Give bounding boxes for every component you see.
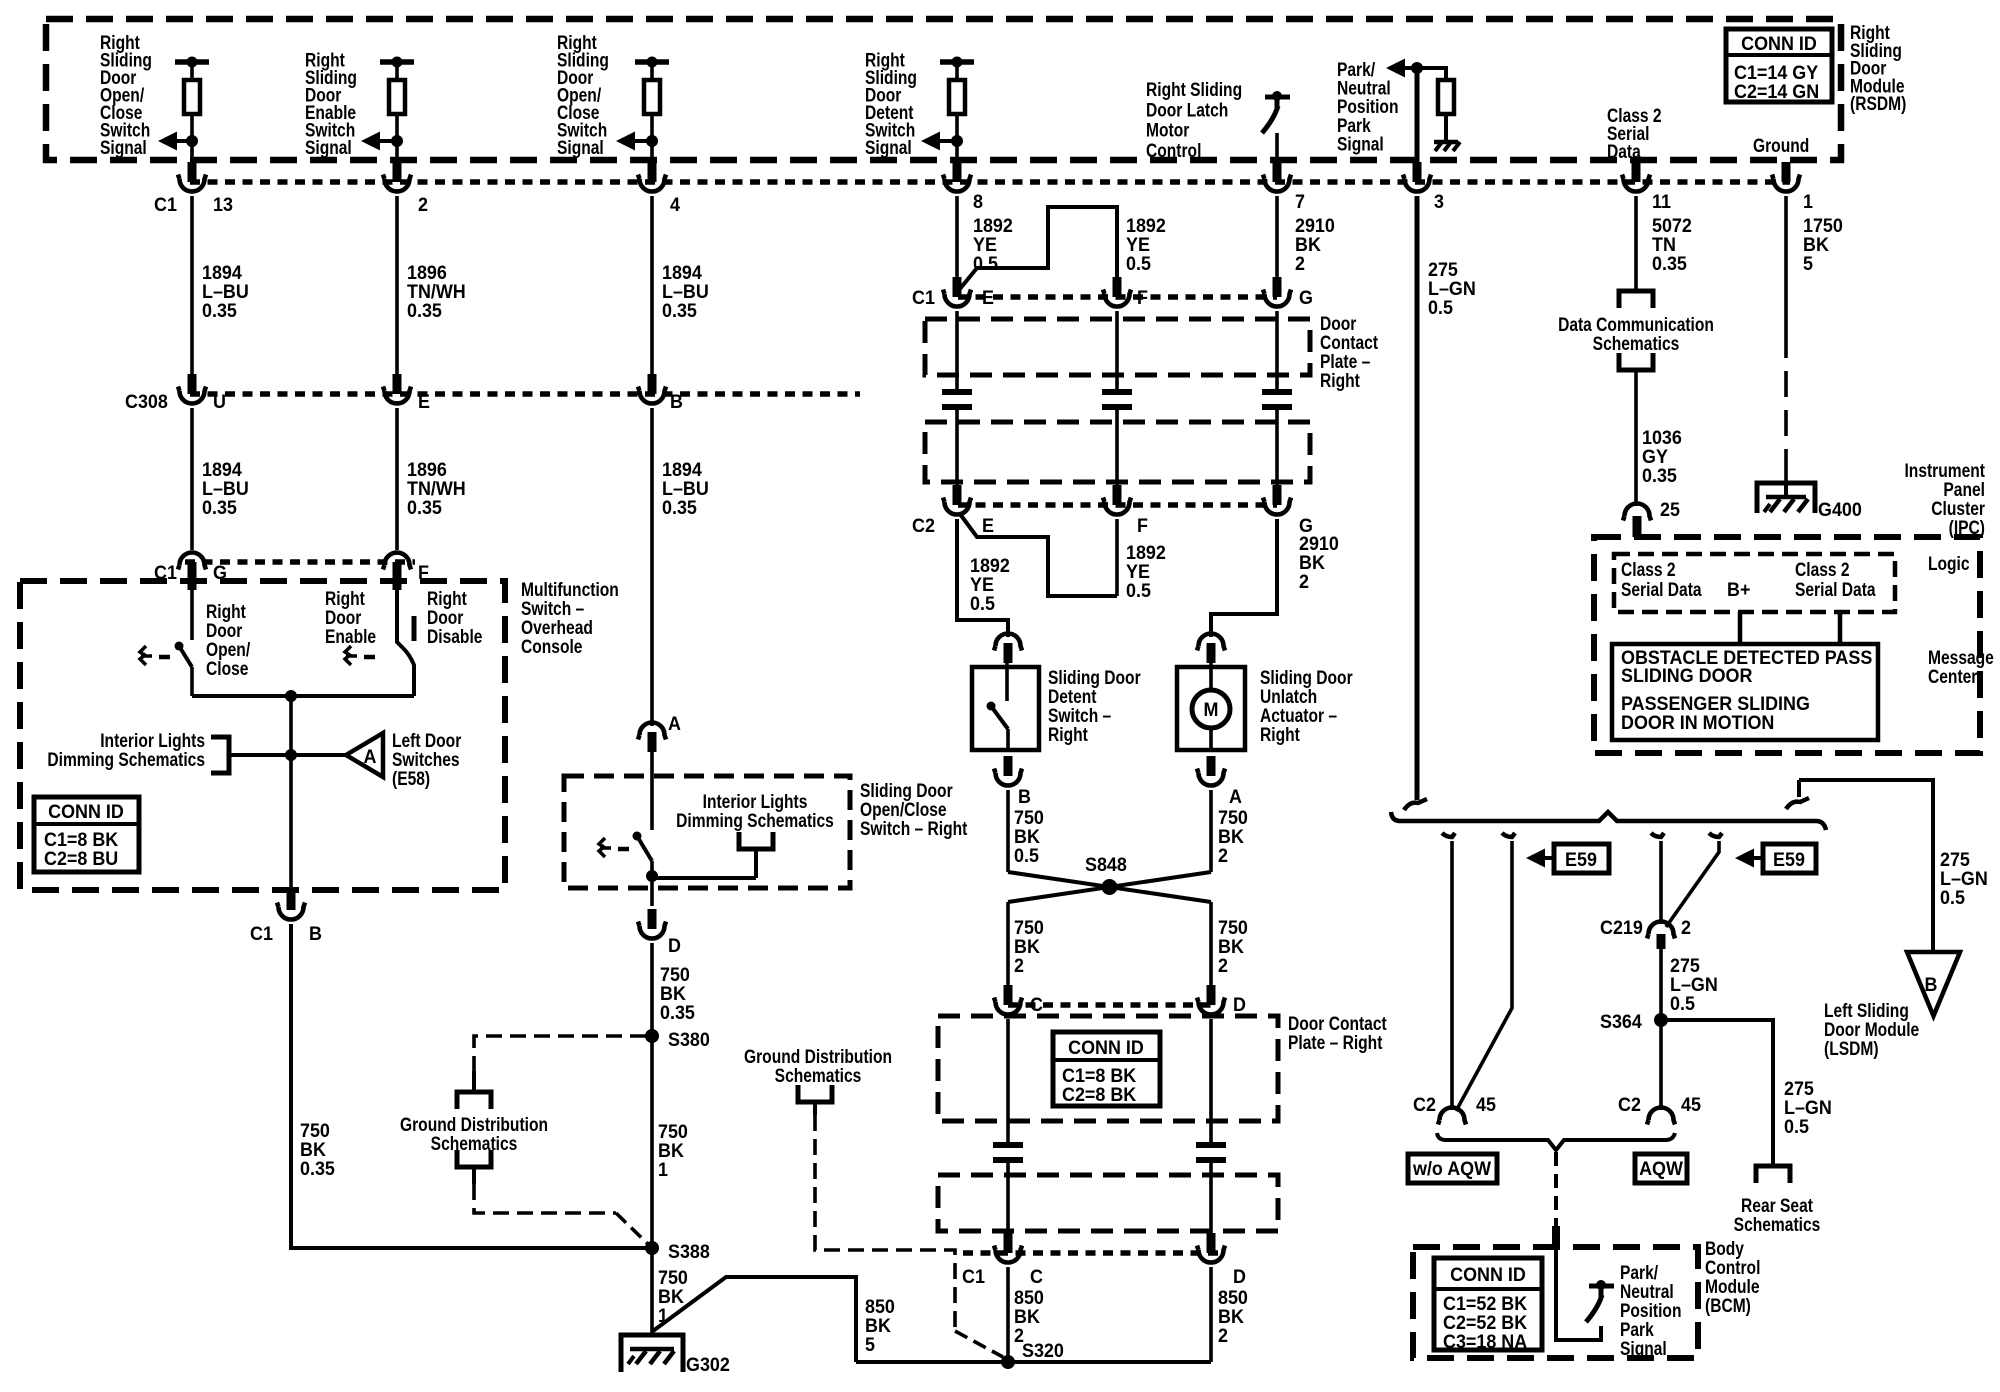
svg-text:Close: Close <box>206 657 249 679</box>
svg-text:2: 2 <box>418 193 428 215</box>
svg-text:C2=8 BU: C2=8 BU <box>44 847 118 869</box>
svg-text:E59: E59 <box>1565 848 1597 870</box>
svg-text:Control: Control <box>1146 139 1201 161</box>
svg-text:0.35: 0.35 <box>1652 252 1687 274</box>
svg-text:F: F <box>418 561 429 583</box>
svg-text:G: G <box>1299 286 1313 308</box>
svg-text:E59: E59 <box>1773 848 1805 870</box>
svg-text:C308: C308 <box>125 390 168 412</box>
svg-text:Signal: Signal <box>1620 1337 1667 1359</box>
svg-text:Enable: Enable <box>325 625 376 647</box>
svg-text:C1: C1 <box>154 193 177 215</box>
svg-text:Signal: Signal <box>100 136 147 158</box>
svg-text:0.5: 0.5 <box>1126 252 1151 274</box>
svg-text:Signal: Signal <box>305 136 352 158</box>
svg-text:0.35: 0.35 <box>407 299 442 321</box>
svg-text:D: D <box>1233 993 1246 1015</box>
svg-text:E: E <box>418 390 430 412</box>
svg-text:Dimming Schematics: Dimming Schematics <box>676 809 834 831</box>
svg-text:B+: B+ <box>1727 578 1750 600</box>
svg-text:1: 1 <box>658 1158 668 1180</box>
svg-text:0.5: 0.5 <box>1784 1115 1809 1137</box>
svg-text:A: A <box>668 712 681 734</box>
svg-text:Motor: Motor <box>1146 119 1189 141</box>
svg-text:0.35: 0.35 <box>662 299 697 321</box>
svg-text:C1: C1 <box>250 922 273 944</box>
svg-text:3: 3 <box>1434 190 1444 212</box>
svg-text:B: B <box>309 922 322 944</box>
svg-text:C219: C219 <box>1600 916 1643 938</box>
svg-text:0.35: 0.35 <box>662 496 697 518</box>
svg-text:25: 25 <box>1660 498 1680 520</box>
svg-text:7: 7 <box>1295 190 1305 212</box>
svg-text:C2=14 GN: C2=14 GN <box>1734 80 1819 102</box>
svg-text:Ground: Ground <box>1753 134 1809 156</box>
svg-text:C2: C2 <box>1618 1093 1641 1115</box>
svg-text:0.5: 0.5 <box>1126 579 1151 601</box>
svg-text:w/o AQW: w/o AQW <box>1412 1157 1491 1179</box>
svg-text:Center: Center <box>1928 665 1977 687</box>
svg-text:2: 2 <box>1218 954 1228 976</box>
svg-text:0.5: 0.5 <box>1428 296 1453 318</box>
svg-text:S320: S320 <box>1022 1339 1064 1361</box>
svg-text:Right: Right <box>1260 723 1300 745</box>
svg-text:S388: S388 <box>668 1240 710 1262</box>
svg-text:G302: G302 <box>686 1353 730 1375</box>
svg-text:Signal: Signal <box>865 136 912 158</box>
svg-text:2: 2 <box>1681 916 1691 938</box>
svg-text:2: 2 <box>1295 252 1305 274</box>
svg-text:Right Sliding: Right Sliding <box>1146 78 1242 100</box>
svg-text:Logic: Logic <box>1928 552 1970 574</box>
svg-text:Serial Data: Serial Data <box>1795 578 1876 600</box>
svg-text:13: 13 <box>213 193 233 215</box>
svg-text:2: 2 <box>1014 954 1024 976</box>
svg-text:0.5: 0.5 <box>1940 886 1965 908</box>
svg-text:S364: S364 <box>1600 1010 1642 1032</box>
svg-text:0.5: 0.5 <box>970 592 995 614</box>
svg-text:C2: C2 <box>1413 1093 1436 1115</box>
svg-text:4: 4 <box>670 193 681 215</box>
svg-text:Data: Data <box>1607 140 1641 162</box>
svg-text:Plate – Right: Plate – Right <box>1288 1031 1383 1053</box>
svg-text:Class 2: Class 2 <box>1621 558 1676 580</box>
svg-text:CONN ID: CONN ID <box>48 800 124 822</box>
svg-text:Signal: Signal <box>557 136 604 158</box>
svg-text:Serial Data: Serial Data <box>1621 578 1702 600</box>
svg-text:0.5: 0.5 <box>1014 844 1039 866</box>
svg-text:C1: C1 <box>912 286 935 308</box>
svg-text:0.35: 0.35 <box>202 496 237 518</box>
svg-text:CONN ID: CONN ID <box>1741 32 1817 54</box>
svg-text:Dimming Schematics: Dimming Schematics <box>47 748 205 770</box>
svg-text:F: F <box>1137 286 1148 308</box>
svg-text:F: F <box>1137 514 1148 536</box>
svg-text:0.35: 0.35 <box>407 496 442 518</box>
svg-text:11: 11 <box>1652 190 1671 212</box>
svg-text:(E58): (E58) <box>392 767 430 789</box>
svg-text:1: 1 <box>658 1304 668 1326</box>
svg-text:B: B <box>1925 973 1938 995</box>
svg-text:Disable: Disable <box>427 625 483 647</box>
svg-text:D: D <box>1233 1265 1246 1287</box>
svg-text:0.35: 0.35 <box>660 1001 695 1023</box>
svg-text:E: E <box>982 286 994 308</box>
svg-text:1: 1 <box>1803 190 1813 212</box>
svg-text:DOOR IN MOTION: DOOR IN MOTION <box>1621 711 1774 733</box>
svg-text:0.35: 0.35 <box>300 1157 335 1179</box>
svg-text:A: A <box>1229 785 1242 807</box>
svg-text:E: E <box>982 514 994 536</box>
svg-text:C2=8 BK: C2=8 BK <box>1062 1083 1137 1105</box>
svg-text:2: 2 <box>1218 1324 1228 1346</box>
svg-text:C: C <box>1030 1265 1043 1287</box>
svg-text:Console: Console <box>521 635 583 657</box>
svg-text:Door Latch: Door Latch <box>1146 99 1228 121</box>
svg-text:SLIDING DOOR: SLIDING DOOR <box>1621 664 1753 686</box>
svg-text:G400: G400 <box>1818 498 1862 520</box>
svg-text:C: C <box>1030 993 1043 1015</box>
svg-text:AQW: AQW <box>1639 1157 1683 1179</box>
svg-text:(RSDM): (RSDM) <box>1850 93 1906 115</box>
svg-text:Signal: Signal <box>1337 133 1384 155</box>
svg-text:8: 8 <box>973 190 983 212</box>
svg-text:2: 2 <box>1218 844 1228 866</box>
svg-text:C1: C1 <box>962 1265 985 1287</box>
svg-text:C3=18 NA: C3=18 NA <box>1443 1330 1528 1352</box>
svg-text:0.35: 0.35 <box>202 299 237 321</box>
svg-text:U: U <box>213 390 226 412</box>
svg-text:45: 45 <box>1681 1093 1701 1115</box>
svg-text:(BCM): (BCM) <box>1705 1294 1751 1316</box>
svg-text:2: 2 <box>1299 570 1309 592</box>
svg-text:(IPC): (IPC) <box>1949 516 1985 538</box>
svg-text:C1: C1 <box>154 561 177 583</box>
svg-text:C2: C2 <box>912 514 935 536</box>
svg-text:Right: Right <box>1320 369 1360 391</box>
svg-text:0.5: 0.5 <box>973 252 998 274</box>
svg-text:5: 5 <box>865 1333 875 1355</box>
svg-text:CONN ID: CONN ID <box>1450 1263 1526 1285</box>
svg-text:CONN ID: CONN ID <box>1068 1036 1144 1058</box>
svg-text:45: 45 <box>1476 1093 1496 1115</box>
svg-text:S380: S380 <box>668 1028 710 1050</box>
svg-text:Right: Right <box>1048 723 1088 745</box>
svg-text:Schematics: Schematics <box>1593 332 1680 354</box>
svg-text:B: B <box>1018 785 1031 807</box>
svg-text:Class 2: Class 2 <box>1795 558 1850 580</box>
svg-text:0.5: 0.5 <box>1670 992 1695 1014</box>
svg-text:A: A <box>364 745 377 767</box>
svg-text:Schematics: Schematics <box>775 1064 862 1086</box>
svg-text:B: B <box>670 390 683 412</box>
svg-text:Schematics: Schematics <box>1734 1213 1821 1235</box>
svg-text:D: D <box>668 934 681 956</box>
svg-text:Switch – Right: Switch – Right <box>860 817 967 839</box>
svg-text:Schematics: Schematics <box>431 1132 518 1154</box>
svg-text:(LSDM): (LSDM) <box>1824 1037 1879 1059</box>
svg-text:S848: S848 <box>1085 853 1127 875</box>
svg-text:5: 5 <box>1803 252 1813 274</box>
svg-text:0.35: 0.35 <box>1642 464 1677 486</box>
svg-text:M: M <box>1204 698 1219 720</box>
svg-text:G: G <box>213 561 227 583</box>
